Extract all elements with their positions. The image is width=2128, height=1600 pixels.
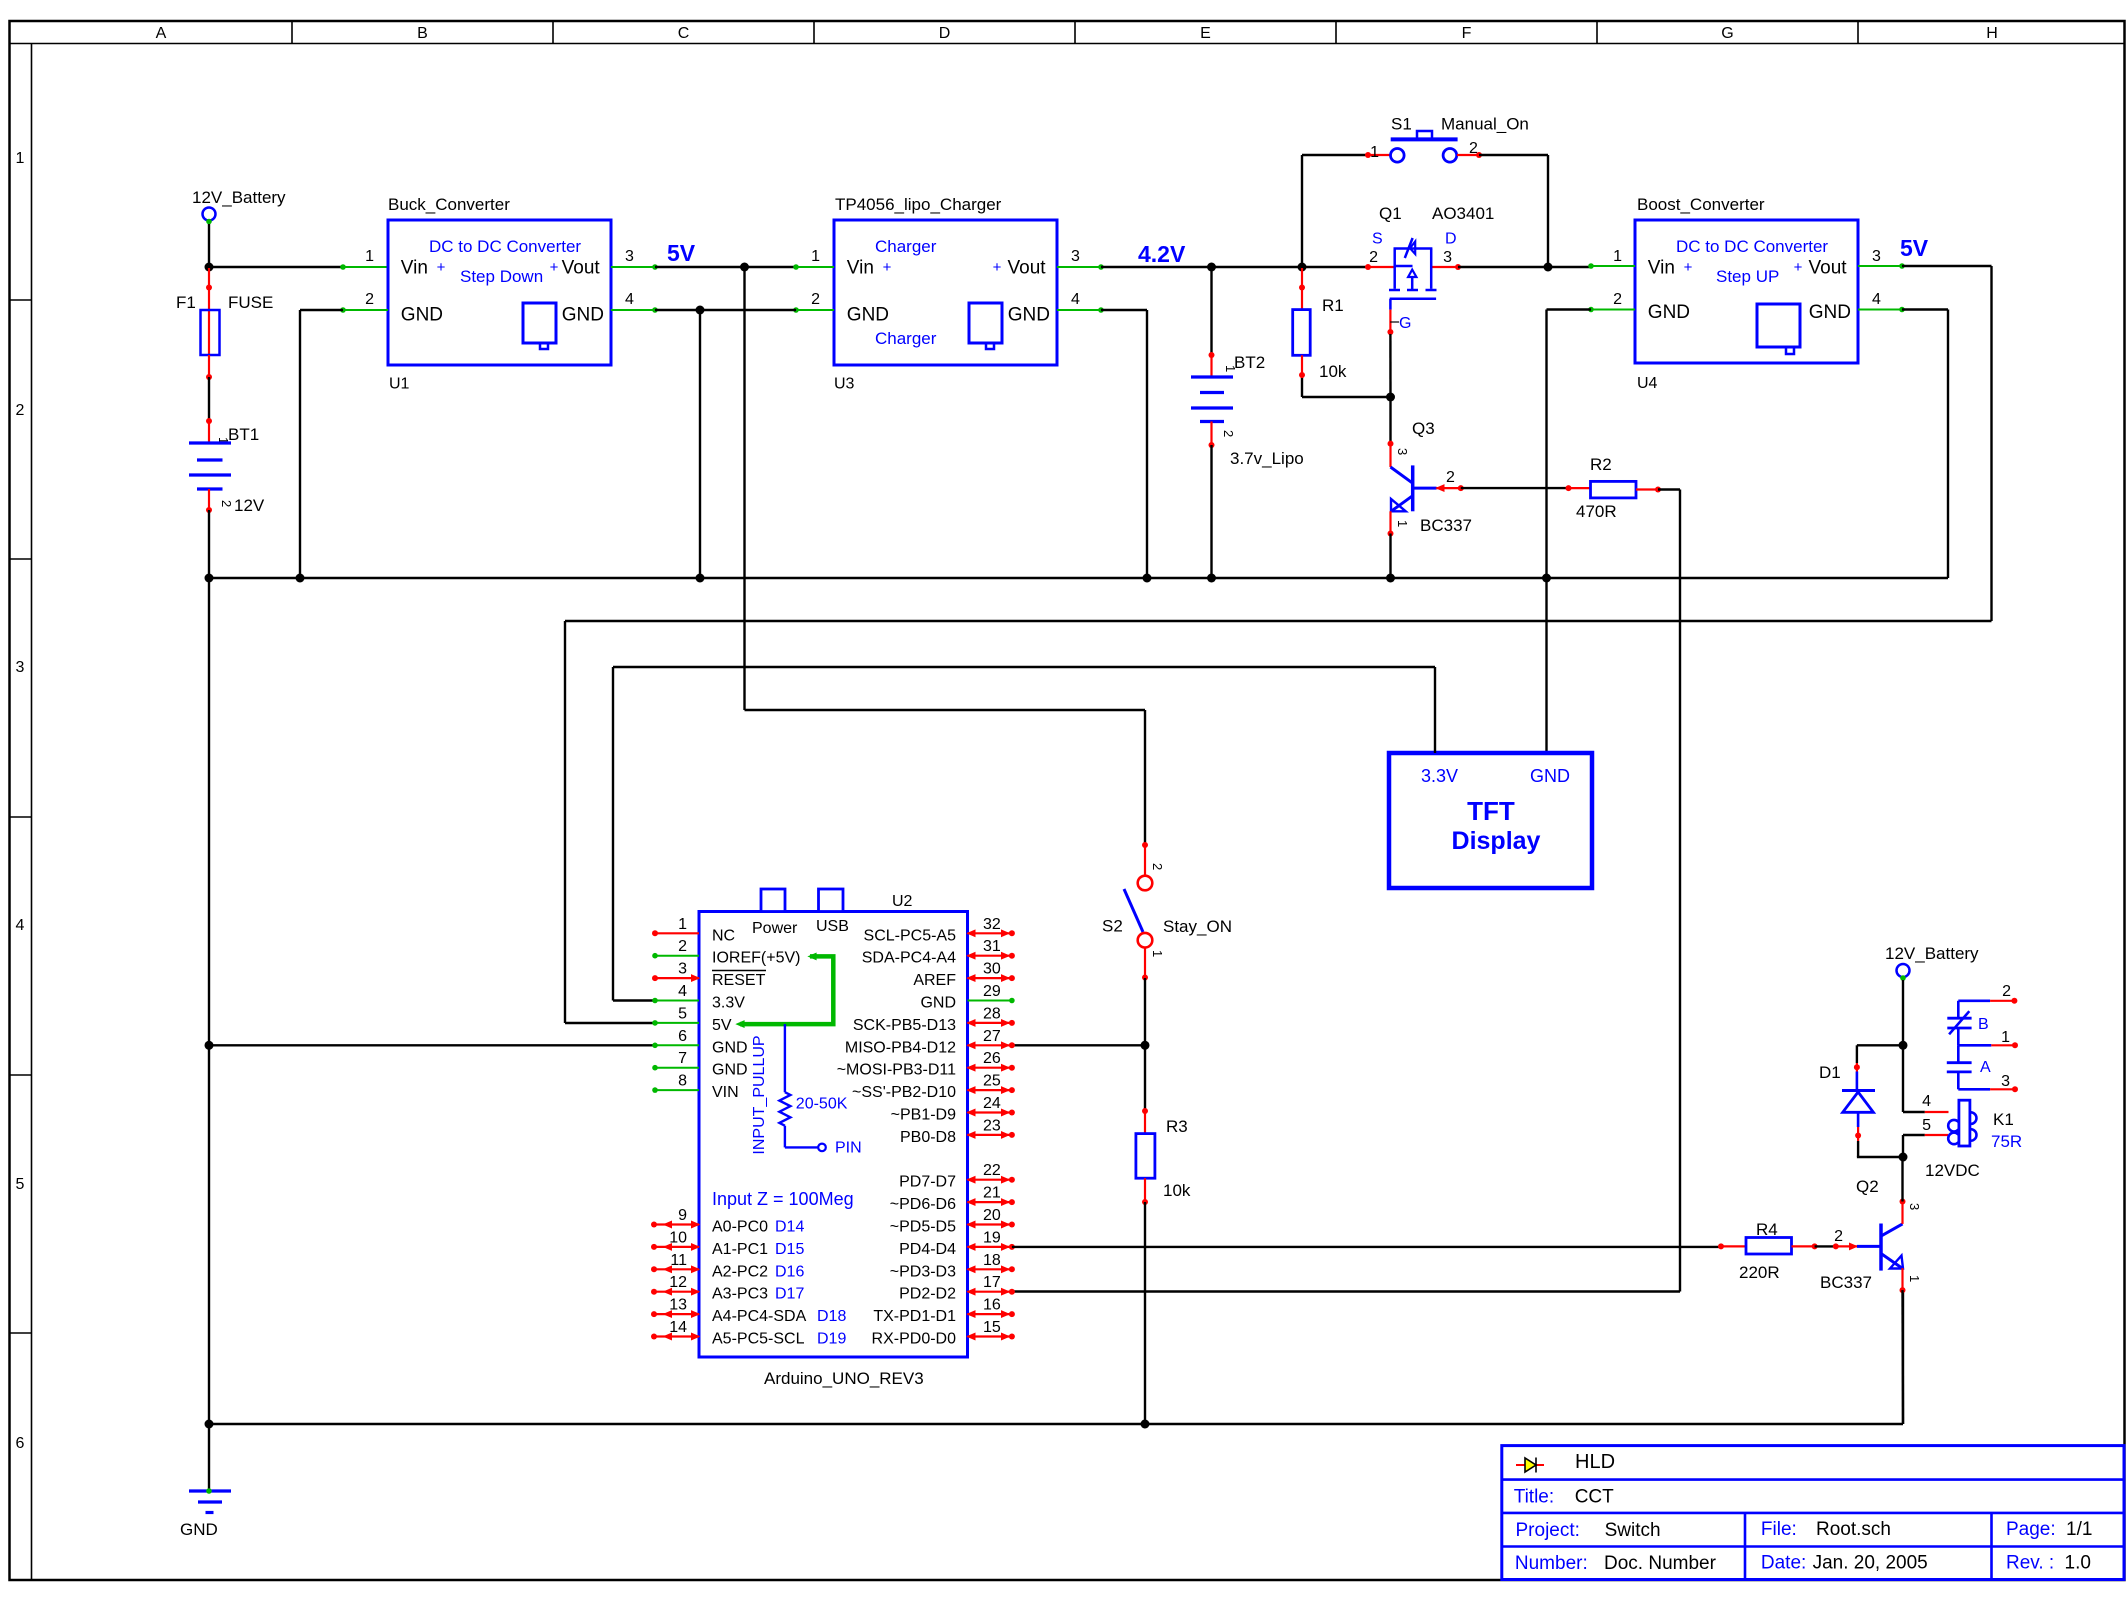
svg-text:MISO-PB4-D12: MISO-PB4-D12 bbox=[845, 1039, 956, 1056]
svg-text:6: 6 bbox=[678, 1028, 687, 1045]
svg-text:1: 1 bbox=[2001, 1029, 2010, 1046]
svg-text:DC to DC Converter: DC to DC Converter bbox=[1676, 237, 1828, 256]
svg-text:PD7-D7: PD7-D7 bbox=[899, 1174, 956, 1191]
svg-text:Doc. Number: Doc. Number bbox=[1604, 1553, 1717, 1574]
svg-text:BC337: BC337 bbox=[1420, 516, 1472, 535]
svg-text:G: G bbox=[1399, 315, 1411, 332]
svg-text:Input Z = 100Meg: Input Z = 100Meg bbox=[712, 1189, 854, 1209]
svg-text:S2: S2 bbox=[1102, 917, 1123, 936]
svg-text:U2: U2 bbox=[892, 893, 913, 910]
svg-text:~PD3-D3: ~PD3-D3 bbox=[890, 1263, 956, 1280]
svg-text:2: 2 bbox=[1446, 469, 1455, 486]
svg-text:28: 28 bbox=[983, 1005, 1001, 1022]
svg-text:3: 3 bbox=[2001, 1073, 2010, 1090]
svg-text:C: C bbox=[678, 25, 690, 42]
svg-text:Title:: Title: bbox=[1514, 1487, 1554, 1508]
svg-text:HLD: HLD bbox=[1575, 1451, 1615, 1473]
svg-text:Root.sch: Root.sch bbox=[1816, 1519, 1891, 1540]
svg-text:~MOSI-PB3-D11: ~MOSI-PB3-D11 bbox=[837, 1062, 956, 1079]
svg-text:Vin: Vin bbox=[1648, 258, 1675, 279]
svg-text:31: 31 bbox=[983, 938, 1001, 955]
svg-text:VIN: VIN bbox=[712, 1084, 739, 1101]
svg-text:3.3V: 3.3V bbox=[1421, 766, 1458, 786]
svg-text:~PD6-D6: ~PD6-D6 bbox=[890, 1196, 956, 1213]
svg-text:10: 10 bbox=[669, 1229, 687, 1246]
svg-text:D14: D14 bbox=[775, 1219, 804, 1236]
svg-text:Power: Power bbox=[752, 920, 798, 937]
svg-text:Q3: Q3 bbox=[1412, 419, 1435, 438]
svg-text:Charger: Charger bbox=[875, 329, 937, 348]
svg-text:S1: S1 bbox=[1391, 115, 1412, 134]
svg-text:Vout: Vout bbox=[1809, 258, 1848, 279]
svg-text:4: 4 bbox=[625, 291, 634, 308]
svg-text:D1: D1 bbox=[1819, 1063, 1841, 1082]
svg-text:4: 4 bbox=[1922, 1093, 1931, 1110]
svg-text:File:: File: bbox=[1761, 1519, 1797, 1540]
svg-text:+: + bbox=[883, 259, 892, 276]
svg-text:22: 22 bbox=[983, 1162, 1001, 1179]
svg-text:BC337: BC337 bbox=[1820, 1273, 1872, 1292]
svg-text:1: 1 bbox=[16, 150, 25, 167]
svg-text:A4-PC4-SDA: A4-PC4-SDA bbox=[712, 1308, 807, 1325]
svg-text:SCK-PB5-D13: SCK-PB5-D13 bbox=[853, 1017, 956, 1034]
svg-text:Charger: Charger bbox=[875, 237, 937, 256]
svg-text:INPUT_PULLUP: INPUT_PULLUP bbox=[751, 1035, 768, 1154]
svg-text:2: 2 bbox=[1469, 140, 1478, 157]
svg-text:15: 15 bbox=[983, 1319, 1001, 1336]
svg-text:~PB1-D9: ~PB1-D9 bbox=[891, 1107, 956, 1124]
svg-text:3.7v_Lipo: 3.7v_Lipo bbox=[1230, 449, 1304, 468]
svg-text:Arduino_UNO_REV3: Arduino_UNO_REV3 bbox=[764, 1369, 924, 1388]
svg-text:3: 3 bbox=[1071, 248, 1080, 265]
svg-text:5: 5 bbox=[678, 1005, 687, 1022]
svg-text:5V: 5V bbox=[712, 1017, 732, 1034]
svg-text:5V: 5V bbox=[667, 240, 696, 266]
svg-text:B: B bbox=[417, 25, 428, 42]
svg-text:30: 30 bbox=[983, 961, 1001, 978]
svg-text:G: G bbox=[1721, 25, 1733, 42]
svg-text:PD4-D4: PD4-D4 bbox=[899, 1241, 956, 1258]
svg-text:1: 1 bbox=[1395, 520, 1410, 527]
svg-text:TX-PD1-D1: TX-PD1-D1 bbox=[873, 1308, 956, 1325]
svg-text:1: 1 bbox=[811, 248, 820, 265]
svg-text:GND: GND bbox=[920, 995, 956, 1012]
svg-text:29: 29 bbox=[983, 983, 1001, 1000]
svg-text:3: 3 bbox=[1443, 249, 1452, 266]
svg-text:20: 20 bbox=[983, 1207, 1001, 1224]
svg-text:19: 19 bbox=[983, 1229, 1001, 1246]
svg-text:Number:: Number: bbox=[1515, 1553, 1588, 1574]
svg-text:GND: GND bbox=[1530, 766, 1570, 786]
svg-text:Page:: Page: bbox=[2006, 1519, 2056, 1540]
svg-text:3: 3 bbox=[16, 659, 25, 676]
svg-text:Q1: Q1 bbox=[1379, 204, 1402, 223]
svg-text:3: 3 bbox=[1395, 448, 1410, 455]
svg-text:18: 18 bbox=[983, 1252, 1001, 1269]
svg-text:7: 7 bbox=[678, 1050, 687, 1067]
svg-text:12VDC: 12VDC bbox=[1925, 1161, 1980, 1180]
svg-text:11: 11 bbox=[670, 1252, 687, 1269]
svg-text:B: B bbox=[1978, 1016, 1989, 1033]
svg-text:21: 21 bbox=[983, 1185, 1001, 1202]
svg-text:4: 4 bbox=[1872, 291, 1881, 308]
svg-text:12V_Battery: 12V_Battery bbox=[192, 188, 286, 207]
svg-text:+: + bbox=[1684, 259, 1693, 276]
svg-text:+: + bbox=[550, 259, 559, 276]
svg-text:2: 2 bbox=[1834, 1228, 1843, 1245]
svg-text:26: 26 bbox=[983, 1050, 1001, 1067]
svg-text:25: 25 bbox=[983, 1073, 1001, 1090]
svg-text:R1: R1 bbox=[1322, 296, 1344, 315]
svg-text:12V: 12V bbox=[234, 496, 265, 515]
svg-text:4: 4 bbox=[16, 917, 25, 934]
svg-text:Manual_On: Manual_On bbox=[1441, 115, 1529, 134]
svg-text:GND: GND bbox=[180, 1520, 218, 1539]
svg-text:32: 32 bbox=[983, 916, 1001, 933]
svg-text:2: 2 bbox=[16, 402, 25, 419]
svg-text:Q2: Q2 bbox=[1856, 1177, 1879, 1196]
svg-text:K1: K1 bbox=[1993, 1110, 2014, 1129]
svg-text:CCT: CCT bbox=[1575, 1487, 1614, 1508]
svg-text:A0-PC0: A0-PC0 bbox=[712, 1219, 768, 1236]
svg-text:3: 3 bbox=[678, 961, 687, 978]
svg-text:3: 3 bbox=[625, 248, 634, 265]
svg-text:2: 2 bbox=[365, 291, 374, 308]
svg-text:24: 24 bbox=[983, 1095, 1001, 1112]
svg-text:PB0-D8: PB0-D8 bbox=[900, 1129, 956, 1146]
svg-text:F1: F1 bbox=[176, 293, 196, 312]
svg-text:+: + bbox=[993, 259, 1002, 276]
svg-text:Rev. :: Rev. : bbox=[2006, 1553, 2054, 1574]
svg-text:PD2-D2: PD2-D2 bbox=[899, 1286, 956, 1303]
svg-text:R2: R2 bbox=[1590, 455, 1612, 474]
svg-text:1: 1 bbox=[365, 248, 374, 265]
svg-text:DC to DC Converter: DC to DC Converter bbox=[429, 237, 581, 256]
svg-text:Vout: Vout bbox=[1008, 258, 1047, 279]
svg-text:GND: GND bbox=[1008, 305, 1050, 326]
svg-text:GND: GND bbox=[562, 305, 604, 326]
svg-text:5: 5 bbox=[1922, 1117, 1931, 1134]
svg-text:12V_Battery: 12V_Battery bbox=[1885, 944, 1979, 963]
svg-text:75R: 75R bbox=[1991, 1132, 2022, 1151]
svg-text:Project:: Project: bbox=[1516, 1520, 1580, 1541]
svg-text:FUSE: FUSE bbox=[228, 293, 273, 312]
svg-text:~SS'-PB2-D10: ~SS'-PB2-D10 bbox=[852, 1084, 956, 1101]
svg-text:1: 1 bbox=[1370, 144, 1379, 161]
svg-text:Display: Display bbox=[1452, 827, 1541, 855]
svg-text:U3: U3 bbox=[834, 376, 855, 393]
svg-text:13: 13 bbox=[669, 1297, 687, 1314]
svg-text:AREF: AREF bbox=[913, 972, 956, 989]
svg-text:3: 3 bbox=[1872, 248, 1881, 265]
svg-text:14: 14 bbox=[669, 1319, 687, 1336]
svg-text:4.2V: 4.2V bbox=[1138, 241, 1186, 267]
svg-text:A3-PC3: A3-PC3 bbox=[712, 1286, 768, 1303]
svg-text:2: 2 bbox=[678, 938, 687, 955]
svg-text:12: 12 bbox=[669, 1274, 687, 1291]
svg-text:D19: D19 bbox=[817, 1331, 846, 1348]
svg-text:10k: 10k bbox=[1163, 1181, 1191, 1200]
svg-text:10k: 10k bbox=[1319, 362, 1347, 381]
svg-text:SDA-PC4-A4: SDA-PC4-A4 bbox=[862, 950, 956, 967]
svg-text:IOREF(+5V): IOREF(+5V) bbox=[712, 950, 800, 967]
svg-text:BT1: BT1 bbox=[228, 425, 259, 444]
svg-text:1: 1 bbox=[1150, 950, 1165, 957]
svg-text:20-50K: 20-50K bbox=[796, 1096, 848, 1113]
svg-text:A: A bbox=[1980, 1059, 1991, 1076]
svg-text:Vin: Vin bbox=[401, 258, 428, 279]
svg-text:GND: GND bbox=[712, 1039, 748, 1056]
svg-text:GND: GND bbox=[847, 305, 889, 326]
svg-text:1: 1 bbox=[1613, 248, 1622, 265]
svg-text:TP4056_lipo_Charger: TP4056_lipo_Charger bbox=[835, 195, 1002, 214]
svg-text:RX-PD0-D0: RX-PD0-D0 bbox=[872, 1331, 957, 1348]
svg-text:E: E bbox=[1200, 25, 1211, 42]
svg-text:2: 2 bbox=[1150, 863, 1165, 870]
svg-text:27: 27 bbox=[983, 1028, 1001, 1045]
svg-text:Jan. 20, 2005: Jan. 20, 2005 bbox=[1813, 1553, 1928, 1574]
svg-text:RESET: RESET bbox=[712, 972, 766, 989]
svg-text:AO3401: AO3401 bbox=[1432, 204, 1494, 223]
svg-text:220R: 220R bbox=[1739, 1263, 1780, 1282]
svg-text:+: + bbox=[1794, 259, 1803, 276]
svg-text:2: 2 bbox=[219, 500, 234, 507]
svg-text:D15: D15 bbox=[775, 1241, 804, 1258]
svg-text:3: 3 bbox=[1907, 1203, 1922, 1210]
svg-text:PIN: PIN bbox=[835, 1140, 862, 1157]
svg-text:~PD5-D5: ~PD5-D5 bbox=[890, 1219, 956, 1236]
svg-text:H: H bbox=[1986, 25, 1998, 42]
svg-text:8: 8 bbox=[678, 1073, 687, 1090]
svg-text:GND: GND bbox=[1648, 302, 1690, 323]
svg-text:Switch: Switch bbox=[1605, 1520, 1661, 1541]
svg-text:GND: GND bbox=[712, 1062, 748, 1079]
svg-text:NC: NC bbox=[712, 927, 735, 944]
svg-text:Vin: Vin bbox=[847, 258, 874, 279]
svg-text:Date:: Date: bbox=[1761, 1553, 1806, 1574]
svg-text:16: 16 bbox=[983, 1297, 1001, 1314]
svg-text:2: 2 bbox=[811, 291, 820, 308]
svg-text:SCL-PC5-A5: SCL-PC5-A5 bbox=[864, 927, 957, 944]
svg-text:USB: USB bbox=[816, 918, 849, 935]
svg-text:Buck_Converter: Buck_Converter bbox=[388, 195, 510, 214]
svg-text:U4: U4 bbox=[1637, 375, 1658, 392]
svg-text:17: 17 bbox=[983, 1274, 1001, 1291]
svg-text:4: 4 bbox=[1071, 291, 1080, 308]
svg-text:D: D bbox=[1445, 231, 1457, 248]
svg-text:A5-PC5-SCL: A5-PC5-SCL bbox=[712, 1331, 805, 1348]
svg-text:TFT: TFT bbox=[1467, 796, 1515, 826]
svg-text:2: 2 bbox=[1613, 291, 1622, 308]
svg-text:GND: GND bbox=[1809, 302, 1851, 323]
svg-text:9: 9 bbox=[678, 1207, 687, 1224]
svg-text:1/1: 1/1 bbox=[2066, 1519, 2092, 1540]
svg-text:5: 5 bbox=[16, 1176, 25, 1193]
svg-text:R3: R3 bbox=[1166, 1117, 1188, 1136]
svg-text:S: S bbox=[1372, 231, 1383, 248]
svg-text:4: 4 bbox=[678, 983, 687, 1000]
svg-text:2: 2 bbox=[2002, 983, 2011, 1000]
svg-text:23: 23 bbox=[983, 1117, 1001, 1134]
svg-text:GND: GND bbox=[401, 305, 443, 326]
svg-text:Vout: Vout bbox=[562, 258, 601, 279]
svg-text:6: 6 bbox=[16, 1435, 25, 1452]
svg-text:+: + bbox=[437, 259, 446, 276]
svg-text:5V: 5V bbox=[1900, 235, 1929, 261]
svg-text:Step Down: Step Down bbox=[460, 267, 543, 286]
svg-text:A: A bbox=[156, 25, 167, 42]
svg-text:Boost_Converter: Boost_Converter bbox=[1637, 195, 1765, 214]
svg-text:Step UP: Step UP bbox=[1716, 267, 1779, 286]
svg-text:1.0: 1.0 bbox=[2065, 1553, 2091, 1574]
svg-text:1: 1 bbox=[678, 916, 687, 933]
svg-text:D17: D17 bbox=[775, 1286, 804, 1303]
svg-text:2: 2 bbox=[1221, 430, 1236, 437]
svg-text:2: 2 bbox=[1369, 249, 1378, 266]
svg-text:U1: U1 bbox=[389, 376, 410, 393]
svg-text:D18: D18 bbox=[817, 1308, 846, 1325]
svg-text:D: D bbox=[939, 25, 951, 42]
svg-text:3.3V: 3.3V bbox=[712, 995, 745, 1012]
svg-text:A1-PC1: A1-PC1 bbox=[712, 1241, 768, 1258]
svg-text:Stay_ON: Stay_ON bbox=[1163, 917, 1232, 936]
svg-text:1: 1 bbox=[1223, 365, 1238, 372]
svg-text:1: 1 bbox=[1907, 1275, 1922, 1282]
svg-text:A2-PC2: A2-PC2 bbox=[712, 1263, 768, 1280]
svg-text:D16: D16 bbox=[775, 1263, 804, 1280]
svg-text:F: F bbox=[1462, 25, 1472, 42]
svg-text:470R: 470R bbox=[1576, 502, 1617, 521]
